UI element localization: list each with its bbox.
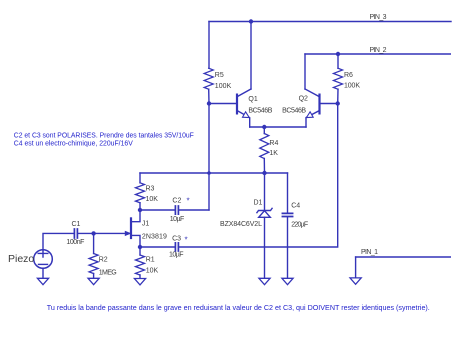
wire C2 right lead to riser <box>179 209 209 211</box>
svg-text:R5: R5 <box>215 72 224 79</box>
svg-text:10µF: 10µF <box>170 216 185 223</box>
wire J1 drain lead <box>132 210 140 222</box>
svg-text:Q2: Q2 <box>299 95 308 102</box>
transistor J1 channel bar <box>130 218 132 238</box>
transistor Q1 emitter diagonal <box>237 111 249 127</box>
svg-text:BC546B: BC546B <box>248 107 272 114</box>
source V1 piezo circle <box>34 250 53 269</box>
capacitor C2 plates <box>175 206 178 214</box>
wire R3 top lead <box>139 173 141 183</box>
wire J1 gate <box>94 232 130 234</box>
svg-text:Q1: Q1 <box>248 96 257 103</box>
diode D1 zener cathode bar <box>257 208 272 212</box>
junction R5 bottom / Q1 base <box>207 101 211 105</box>
wire D1 bottom lead to ground <box>264 217 266 278</box>
svg-text:1K: 1K <box>269 150 278 157</box>
svg-text:PIN_2: PIN_2 <box>370 47 387 54</box>
wire D1 top lead from bias line <box>264 173 266 210</box>
wire R1 top lead <box>139 247 141 255</box>
svg-text:100K: 100K <box>344 83 360 90</box>
svg-text:C1: C1 <box>72 221 81 228</box>
junction on PIN_3 rail at Q1 collector <box>249 19 253 23</box>
wire Q1 collector drop from rail <box>250 22 252 90</box>
svg-text:2N3819: 2N3819 <box>142 233 167 240</box>
wire R2 bottom lead to ground <box>93 274 95 279</box>
wire left vertical from rail corner down to R5 top <box>208 22 210 69</box>
svg-text:10K: 10K <box>146 267 159 274</box>
svg-text:Piezo: Piezo <box>8 253 34 265</box>
wire C2 right plate riser (bias line down to C2 line) <box>208 173 210 210</box>
wire Q2 collector drop from PIN_2 rail <box>304 54 306 89</box>
resistor R4 <box>260 134 269 159</box>
wire R3 bottom lead to J1 drain junction <box>139 203 141 210</box>
svg-text:PIN_1: PIN_1 <box>361 249 378 256</box>
wire C4 top lead from bias line <box>287 173 289 213</box>
wire PIN_1 drop to ground <box>355 257 357 278</box>
ground (PIN_1) <box>350 278 361 284</box>
svg-text:100nF: 100nF <box>66 239 84 246</box>
wire J1 source lead <box>132 235 140 247</box>
junction bias line / R4-D1 <box>262 171 266 175</box>
wire R2 top lead <box>93 233 95 253</box>
junction bias line / R5-C2 riser <box>207 171 211 175</box>
wire piezo bottom to ground <box>42 268 44 278</box>
svg-text:C2 et C3 sont POLARISES. Prend: C2 et C3 sont POLARISES. Prendre des tan… <box>14 133 194 140</box>
svg-text:C3: C3 <box>172 236 181 243</box>
wire C2 left lead from drain junction <box>140 209 175 211</box>
ground (R2) <box>88 278 99 284</box>
transistor Q2 emitter arrowhead <box>306 112 313 118</box>
wire R5 bottom to Q1-base junction and down to bias line <box>208 89 210 173</box>
svg-text:100K: 100K <box>215 83 232 90</box>
transistor J1 gate arrowhead <box>125 231 130 235</box>
junction C1 / R2 / gate <box>91 231 95 235</box>
svg-text:R2: R2 <box>99 257 108 264</box>
ground (piezo) <box>37 278 48 284</box>
svg-text:C4: C4 <box>291 202 300 209</box>
wire bias line (base bias net, y=173) <box>140 172 288 174</box>
svg-text:1MEG: 1MEG <box>99 269 117 276</box>
wire R6 top lead from PIN_2 rail <box>337 54 339 68</box>
wire C4 bottom lead to ground <box>287 217 289 279</box>
wire C3 left lead from source junction <box>140 246 175 248</box>
wire PIN_1 line (y=257) <box>356 256 451 258</box>
svg-text:BZX84C6V2L: BZX84C6V2L <box>220 221 262 228</box>
ground (R1) <box>134 279 145 285</box>
wire R4 bottom lead to bias line <box>263 159 265 174</box>
wire PIN_3 rail (V+ net, y=21.5) <box>209 21 451 23</box>
svg-text:R6: R6 <box>344 72 353 79</box>
svg-text:Tu reduis la bande passante da: Tu reduis la bande passante dans le grav… <box>47 305 430 312</box>
junction J1 source / R1 / C3 <box>138 245 142 249</box>
resistor R1 <box>136 255 145 275</box>
svg-text:J1: J1 <box>142 220 150 227</box>
source V1 minus sign <box>39 263 48 265</box>
wire C3 line to Q2 base riser <box>179 104 338 248</box>
ground (C4) <box>282 278 293 284</box>
wire PIN_2 rail (y=54) <box>305 53 450 55</box>
svg-text:D1: D1 <box>254 199 263 206</box>
wire emitter rail Q1 to Q2 <box>250 126 306 128</box>
capacitor C4 plates <box>282 213 292 216</box>
wire R1 bottom lead to ground <box>139 275 141 278</box>
ground (D1) <box>259 278 270 284</box>
svg-text:C4 est un electro-chimique, 22: C4 est un electro-chimique, 220uF/16V <box>14 141 133 148</box>
wire Q1 base <box>209 103 236 105</box>
transistor Q1 base bar <box>236 95 238 114</box>
svg-text:R1: R1 <box>146 256 155 263</box>
junction on PIN_2 rail at R6 <box>336 52 340 56</box>
wire C1 right lead to gate node <box>78 232 94 234</box>
wire piezo top to C1 line <box>43 233 74 249</box>
transistor Q2 base bar <box>318 95 320 114</box>
resistor R2 <box>89 254 98 274</box>
source V1 plus sign <box>38 250 48 257</box>
svg-text:*: * <box>187 197 190 206</box>
junction emitter rail / R4 <box>262 125 266 129</box>
capacitor C1 plates <box>74 229 77 238</box>
junction J1 drain / R3 / C2 <box>138 208 142 212</box>
svg-text:220µF: 220µF <box>291 222 308 229</box>
resistor R3 <box>136 183 145 203</box>
svg-text:10K: 10K <box>146 196 159 203</box>
junction R6 bottom / Q2 base <box>336 101 340 105</box>
transistor Q2 emitter diagonal <box>306 111 319 127</box>
resistor R5 <box>204 68 213 89</box>
transistor Q1 emitter arrowhead <box>243 112 250 118</box>
transistor Q2 collector diagonal <box>305 89 319 97</box>
resistor R6 <box>334 68 343 89</box>
svg-text:*: * <box>185 236 188 245</box>
wire Q2 base <box>320 103 337 105</box>
capacitor C3 plates <box>175 243 178 251</box>
svg-text:R3: R3 <box>146 186 155 193</box>
transistor Q1 collector diagonal <box>237 89 251 97</box>
svg-text:BC546B: BC546B <box>282 108 306 115</box>
wire R4 top lead <box>263 127 265 134</box>
diode D1 triangle <box>259 211 271 218</box>
svg-text:C2: C2 <box>172 198 181 205</box>
wire R6 bottom lead to Q2 base junction <box>337 89 339 103</box>
svg-text:R4: R4 <box>269 140 278 147</box>
svg-text:PIN_3: PIN_3 <box>370 14 387 21</box>
svg-text:10µF: 10µF <box>169 252 184 259</box>
